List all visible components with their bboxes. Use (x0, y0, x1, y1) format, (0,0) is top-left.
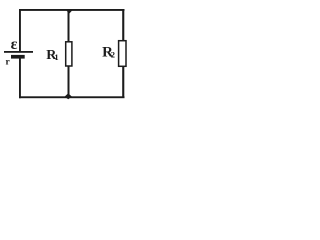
svg-text:1: 1 (54, 52, 58, 62)
svg-text:ε: ε (11, 36, 18, 53)
svg-text:2: 2 (111, 49, 115, 59)
